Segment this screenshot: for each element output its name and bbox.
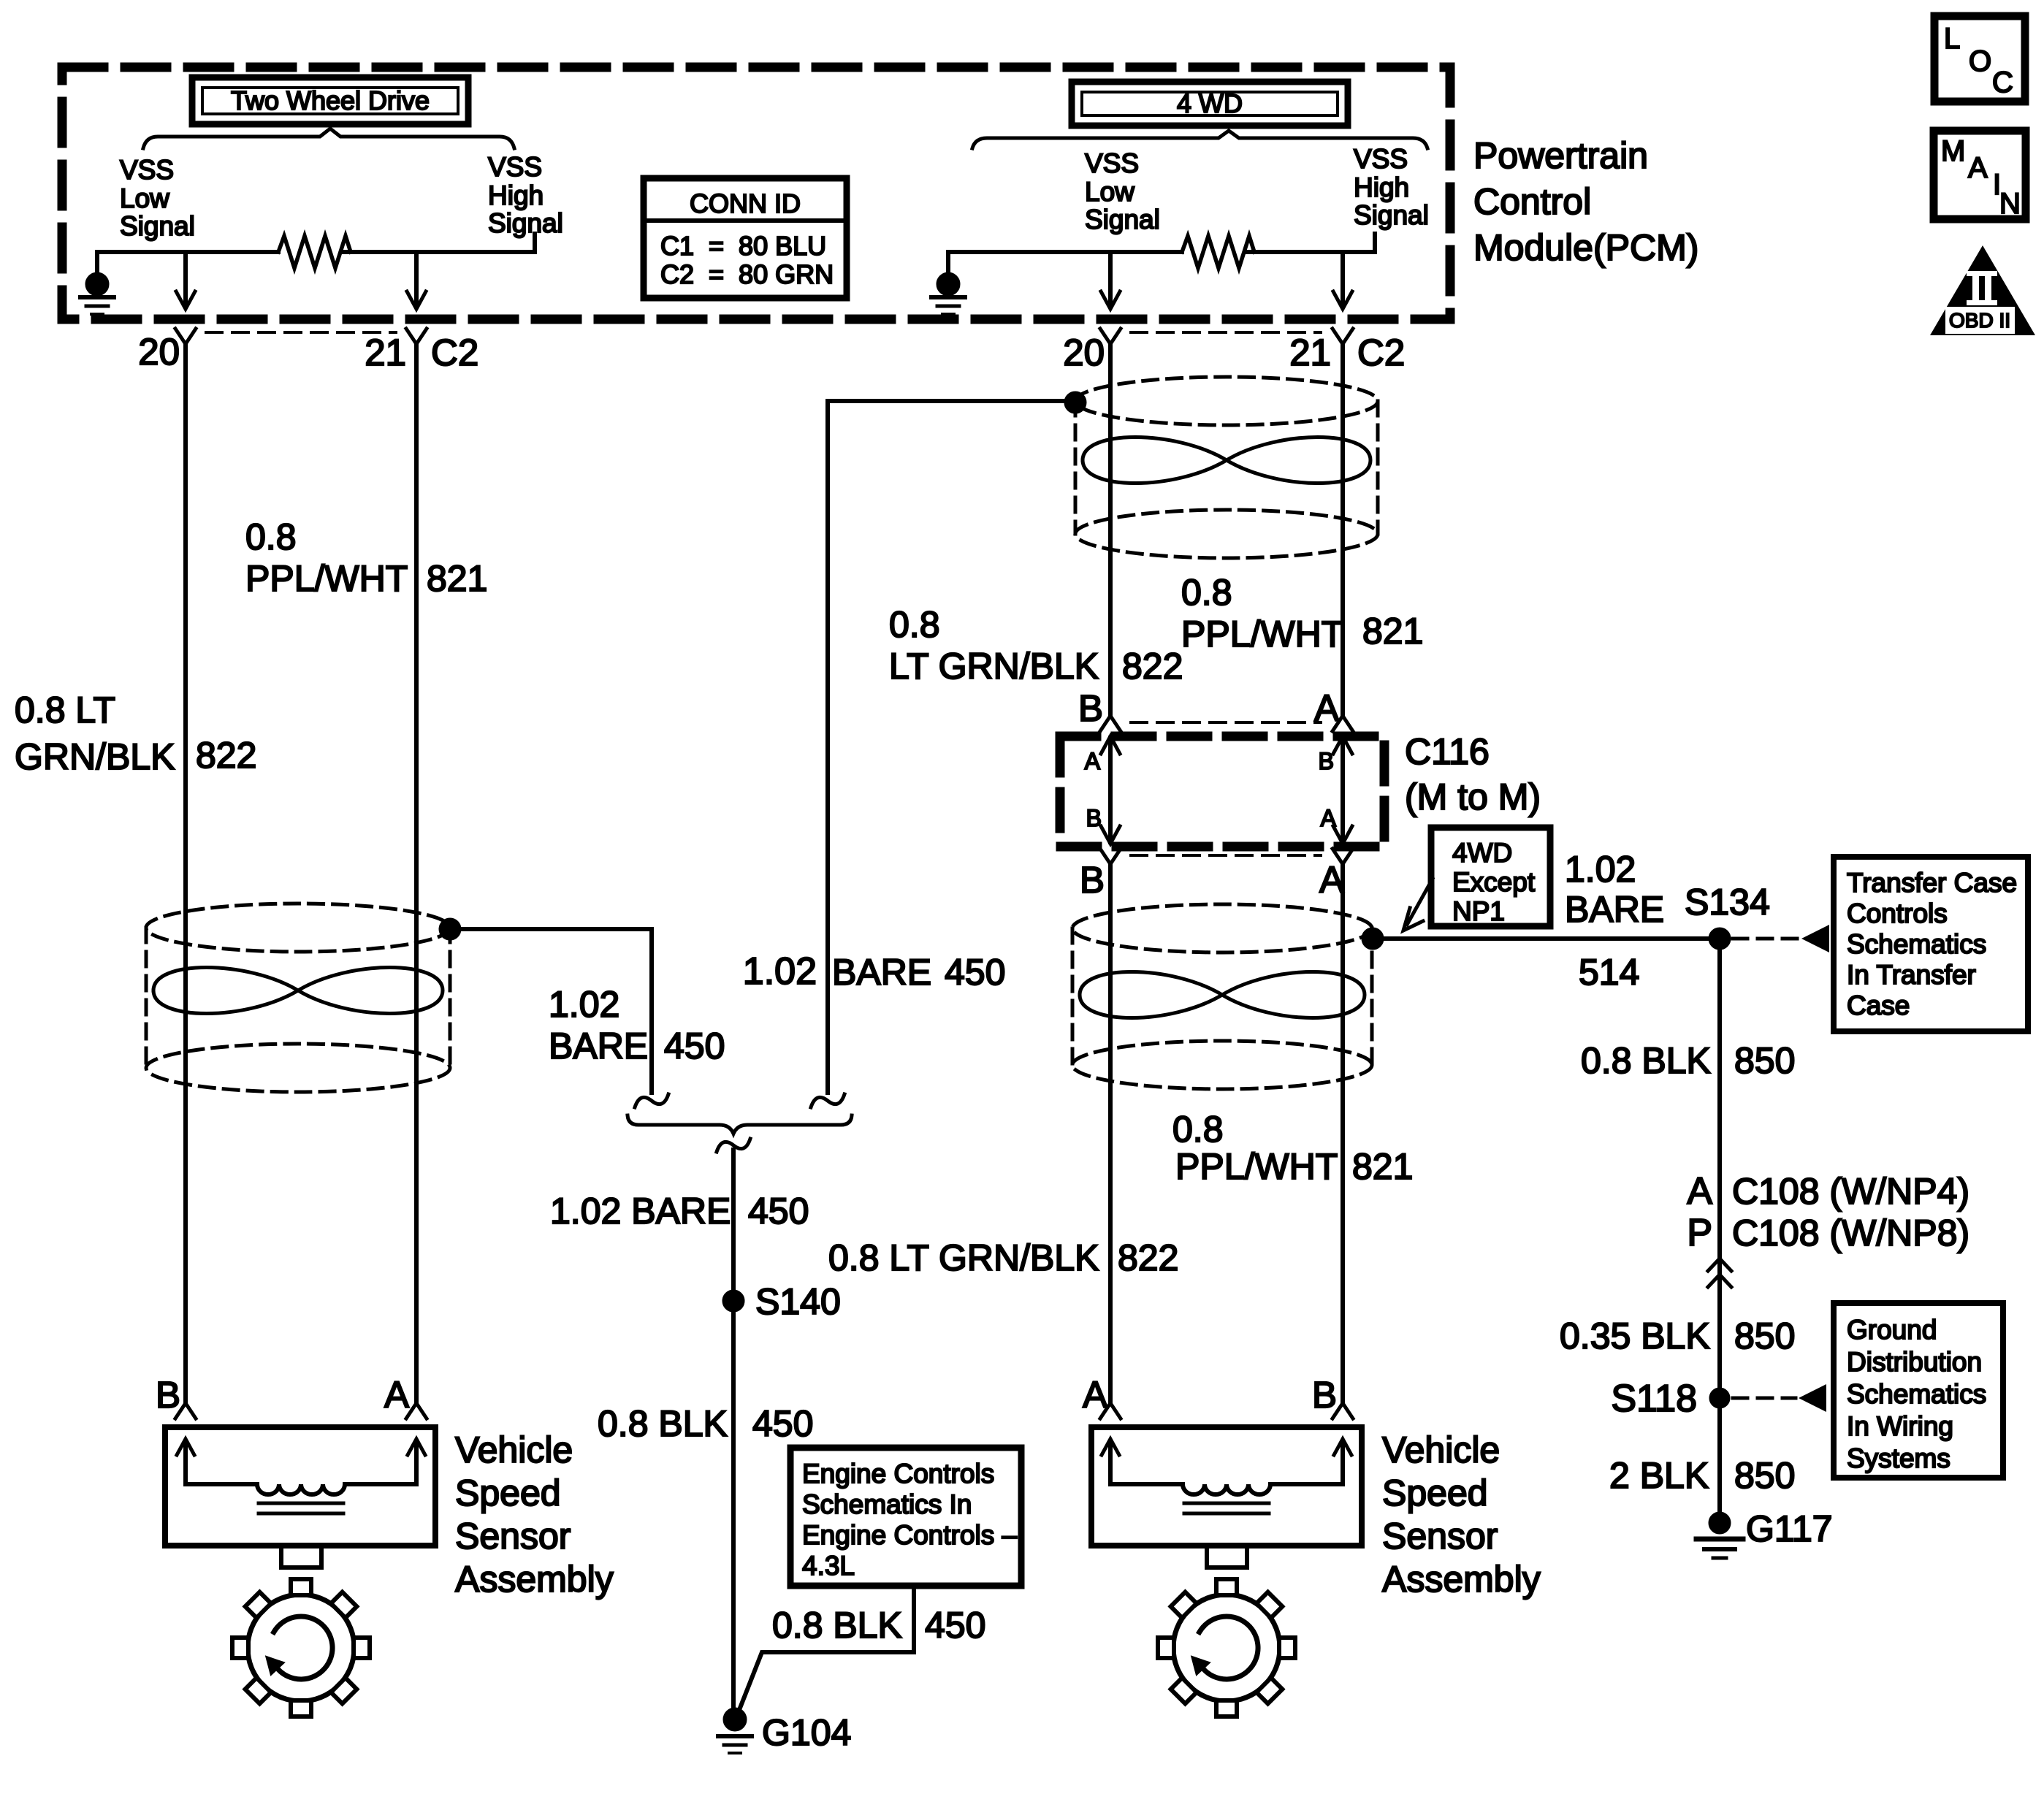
label S134 (1685, 882, 1770, 923)
connector C2 boundary dashed line (2WD) (206, 331, 396, 334)
pin B label in C116 bottom-left (1086, 805, 1102, 831)
connector C116 dashed box (1060, 736, 1384, 847)
wire 821 PPL/WHT (4WD) (1341, 344, 1345, 716)
pin A label (4WD VSS) (1083, 1374, 1107, 1416)
svg-text:450: 450 (748, 1191, 809, 1232)
svg-text:0.8: 0.8 (1181, 572, 1232, 613)
svg-text:C108 (W/NP4): C108 (W/NP4) (1732, 1171, 1969, 1212)
svg-text:822: 822 (1118, 1237, 1178, 1278)
svg-text:C: C (1992, 66, 2013, 99)
connector half below C116 right (1332, 849, 1353, 864)
connector pin 21 (2WD) (406, 329, 427, 344)
svg-text:In Transfer: In Transfer (1847, 960, 1976, 990)
dashed reference link from S118 (1733, 1384, 1826, 1412)
svg-text:821: 821 (427, 558, 487, 599)
OBD II symbol triangle (1930, 245, 2035, 335)
wire 822 LT GRN/BLK (2WD, circuit 822) (183, 344, 188, 1402)
svg-text:PPL/WHT: PPL/WHT (1181, 614, 1343, 654)
label 1.02 BARE 514 (1565, 849, 1664, 993)
vehicle speed sensor assembly (2WD) (165, 1427, 435, 1717)
male pin arrow in C116 right (1333, 736, 1352, 844)
break symbol (combined drain) (717, 1139, 750, 1152)
svg-text:2 BLK: 2 BLK (1609, 1455, 1709, 1496)
pin 21 label (4WD C2) (1289, 332, 1331, 373)
connector C108 chevrons (1708, 1259, 1731, 1287)
connector C2 label (4WD) (1357, 332, 1405, 373)
svg-text:BARE: BARE (832, 952, 931, 993)
connector half below C116 left (1100, 849, 1121, 864)
label 0.8 PPL/WHT 821 (2WD) (245, 516, 487, 599)
wire 450 BLK to G104 (731, 1150, 736, 1719)
svg-text:A: A (1321, 805, 1337, 831)
svg-text:850: 850 (1734, 1455, 1795, 1496)
svg-text:0.8 LT: 0.8 LT (15, 690, 115, 730)
svg-text:VSS: VSS (1085, 148, 1139, 178)
svg-text:C1 = 80 BLU: C1 = 80 BLU (660, 231, 826, 261)
svg-text:Low: Low (1085, 177, 1135, 207)
wire 514 BARE to S134 (1373, 936, 1720, 941)
svg-text:OBD II: OBD II (1949, 309, 2010, 332)
svg-text:450: 450 (925, 1605, 985, 1646)
label S118 (1611, 1378, 1697, 1420)
connector C2 label (2WD) (431, 332, 478, 373)
svg-text:PPL/WHT: PPL/WHT (1175, 1146, 1338, 1187)
svg-text:In Wiring: In Wiring (1847, 1411, 1953, 1441)
resistor R2 (4WD VSS bias) (1182, 236, 1254, 268)
label Vehicle Speed Sensor Assembly (4WD) (1382, 1429, 1541, 1600)
connector boundary dashed above C116 (1131, 721, 1321, 724)
label 1.02 BARE 450 (2WD drain) (549, 984, 725, 1066)
pin A label in C116 top-left (1085, 748, 1101, 774)
svg-text:4 WD: 4 WD (1177, 88, 1243, 118)
svg-text:Two Wheel Drive: Two Wheel Drive (231, 85, 430, 115)
svg-text:Assembly: Assembly (1382, 1559, 1541, 1600)
twisted pair shield (4WD lower cable) (1072, 904, 1372, 1089)
label 0.8 BLK 450 (598, 1403, 813, 1444)
svg-text:Signal: Signal (1085, 205, 1160, 234)
svg-text:Speed: Speed (1382, 1473, 1488, 1513)
svg-text:Transfer Case: Transfer Case (1847, 868, 2017, 898)
label 2 BLK 850 (1609, 1455, 1795, 1496)
label C116 (M to M) (1405, 731, 1541, 817)
ground (PCM internal, 4WD) (931, 252, 965, 314)
connector pin B (2WD VSS) (175, 1403, 196, 1418)
svg-text:C2: C2 (431, 332, 478, 373)
svg-text:Signal: Signal (120, 211, 195, 241)
wire 821 PPL/WHT (2WD, circuit 821) (414, 344, 419, 1402)
pin A label in C116 bottom-right (1321, 805, 1337, 831)
label Powertrain Control Module(PCM) (1473, 135, 1698, 268)
label Vehicle Speed Sensor Assembly (2WD) (455, 1429, 614, 1600)
wire 850 BLK from S134 (1717, 939, 1722, 1523)
svg-text:20: 20 (1063, 332, 1105, 373)
ground G104 (718, 1708, 752, 1753)
svg-text:Controls: Controls (1847, 898, 1948, 928)
svg-text:0.35 BLK: 0.35 BLK (1560, 1316, 1710, 1356)
svg-text:822: 822 (196, 735, 256, 776)
twisted pair twist (4WD upper cable) (1083, 438, 1370, 484)
svg-text:VSS: VSS (1354, 144, 1408, 174)
junction (4WD lower shield drain to S134) (1362, 928, 1384, 950)
wire 822 below C116 (1108, 864, 1113, 1402)
splice S140 (722, 1290, 744, 1312)
svg-text:Engine Controls –: Engine Controls – (802, 1520, 1018, 1550)
svg-text:Systems: Systems (1847, 1443, 1950, 1473)
label 0.8 BLK 450 (engine) (772, 1605, 985, 1646)
pin 20 label (2WD C2) (138, 331, 180, 373)
pin B label (2WD VSS) (156, 1374, 180, 1416)
pin A label (2WD VSS) (384, 1374, 409, 1416)
svg-text:Sensor: Sensor (1382, 1516, 1498, 1557)
label A C108 (W/NP4) (1687, 1170, 1969, 1213)
arrow to pin 20 (2WD) (176, 252, 195, 309)
wire 821 below C116 (1341, 864, 1345, 1402)
svg-text:Module(PCM): Module(PCM) (1473, 227, 1698, 268)
svg-text:B: B (1319, 748, 1334, 774)
svg-text:P: P (1687, 1212, 1712, 1254)
svg-text:Engine Controls: Engine Controls (802, 1459, 994, 1489)
svg-text:21: 21 (365, 332, 406, 373)
svg-text:B: B (156, 1374, 180, 1416)
svg-text:VSS: VSS (488, 152, 542, 182)
Ground Distribution reference box (1834, 1303, 2003, 1478)
svg-text:S140: S140 (755, 1281, 841, 1322)
label G117 (1746, 1508, 1833, 1549)
svg-text:Speed: Speed (455, 1473, 561, 1513)
connector pin A (2WD VSS) (406, 1403, 427, 1418)
label 1.02 BARE 450 (combined) (550, 1191, 809, 1232)
svg-text:M: M (1941, 135, 1965, 167)
arrow to pin 21 (4WD) (1333, 252, 1352, 309)
label P C108 (W/NP8) (1687, 1212, 1969, 1254)
pin B label below C116 (1080, 859, 1105, 901)
svg-text:NP1: NP1 (1452, 896, 1505, 926)
connector pin B (4WD VSS) (1332, 1403, 1353, 1418)
svg-text:Low: Low (120, 183, 169, 213)
Engine Controls reference box (790, 1448, 1021, 1586)
svg-text:4WD: 4WD (1452, 838, 1512, 868)
ground G117 (1696, 1512, 1743, 1558)
svg-text:Vehicle: Vehicle (455, 1429, 573, 1470)
ground (PCM internal, 2WD) (80, 252, 114, 314)
svg-text:CONN ID: CONN ID (690, 188, 801, 218)
svg-text:Powertrain: Powertrain (1473, 135, 1648, 176)
4 WD label box (1072, 82, 1348, 126)
pin A label above C116 (1314, 687, 1339, 729)
label 1.02 BARE 450 (4WD drain) (743, 950, 1006, 993)
svg-text:High: High (488, 180, 544, 210)
4WD Except NP1 note box (1431, 828, 1550, 926)
arrow to pin 21 (2WD) (407, 252, 426, 309)
svg-text:Schematics: Schematics (1847, 929, 1986, 959)
wire 450 drain (2WD shield) (450, 929, 652, 1093)
svg-text:0.8: 0.8 (889, 604, 940, 645)
svg-text:450: 450 (752, 1403, 813, 1444)
svg-text:B: B (1078, 687, 1103, 729)
svg-text:450: 450 (945, 952, 1005, 993)
svg-text:Assembly: Assembly (455, 1559, 614, 1600)
svg-text:822: 822 (1122, 646, 1183, 687)
svg-text:A: A (1968, 152, 1988, 184)
label VSS High Signal (4WD) (1354, 144, 1429, 230)
connector boundary dashed below C116 (1131, 854, 1321, 857)
svg-text:BARE: BARE (549, 1026, 648, 1066)
svg-text:0.8 BLK: 0.8 BLK (598, 1403, 728, 1444)
svg-text:N: N (1999, 188, 2021, 220)
svg-text:0.8 BLK: 0.8 BLK (772, 1605, 902, 1646)
svg-text:450: 450 (664, 1026, 725, 1066)
male pin arrow in C116 left (1101, 736, 1120, 844)
svg-text:0.8: 0.8 (1172, 1109, 1224, 1150)
break symbol (4WD drain wire) (811, 1094, 844, 1107)
svg-text:821: 821 (1362, 611, 1423, 652)
svg-text:C2 = 80 GRN: C2 = 80 GRN (660, 259, 834, 289)
wire PCM 2WD internal (97, 234, 535, 252)
connector pin 20 (2WD) (175, 329, 196, 344)
svg-text:Schematics In: Schematics In (802, 1489, 972, 1519)
arrow to pin 20 (4WD) (1101, 252, 1120, 309)
Transfer Case Controls reference box (1834, 857, 2028, 1031)
label VSS Low Signal (4WD) (1085, 148, 1160, 234)
svg-text:A: A (1319, 859, 1344, 901)
arrow from 4WD note to junction (1403, 879, 1433, 931)
svg-text:A: A (1085, 748, 1101, 774)
svg-text:0.8 LT GRN/BLK: 0.8 LT GRN/BLK (828, 1237, 1099, 1278)
Powertrain Control Module (PCM) dashed boundary box (62, 67, 1450, 319)
label 0.8 LT GRN/BLK 822 (4WD upper) (889, 604, 1183, 687)
label 0.35 BLK 850 (1560, 1316, 1795, 1356)
svg-text:Signal: Signal (1354, 200, 1429, 230)
twisted pair shield (2WD cable) (146, 904, 450, 1092)
svg-text:821: 821 (1352, 1146, 1413, 1187)
wire 450 drain (4WD shield to splice) (828, 401, 1065, 1093)
svg-text:O: O (1969, 45, 1991, 77)
svg-text:LT GRN/BLK: LT GRN/BLK (889, 646, 1099, 687)
brace joining drain wires (628, 1115, 852, 1134)
svg-text:Schematics: Schematics (1847, 1379, 1986, 1409)
svg-text:Control: Control (1473, 181, 1591, 222)
svg-text:Vehicle: Vehicle (1382, 1429, 1500, 1470)
svg-text:Distribution: Distribution (1847, 1347, 1982, 1377)
pin B label in C116 top-right (1319, 748, 1334, 774)
svg-text:Case: Case (1847, 990, 1910, 1020)
label G104 (762, 1712, 851, 1753)
brace under 4 WD box (972, 131, 1427, 148)
svg-text:PPL/WHT: PPL/WHT (245, 558, 408, 599)
pin B label (4WD VSS) (1312, 1374, 1337, 1416)
svg-text:B: B (1086, 805, 1102, 831)
Two Wheel Drive label box (192, 77, 468, 124)
twisted pair twist (2WD cable) (153, 968, 443, 1014)
svg-text:850: 850 (1734, 1040, 1795, 1081)
svg-text:(M to M): (M to M) (1405, 776, 1541, 817)
svg-text:1.02: 1.02 (743, 950, 817, 993)
svg-text:C2: C2 (1357, 332, 1405, 373)
svg-text:B: B (1312, 1374, 1337, 1416)
svg-text:BARE: BARE (1565, 889, 1664, 930)
svg-text:0.8 BLK: 0.8 BLK (1581, 1040, 1711, 1081)
junction (2WD shield drain to 450) (439, 918, 461, 940)
svg-text:G104: G104 (762, 1712, 851, 1753)
vehicle speed sensor assembly (4WD) (1091, 1427, 1362, 1717)
label VSS High Signal (2WD) (488, 152, 563, 238)
MAIN symbol box (1934, 131, 2026, 220)
connector C2 boundary dashed line (4WD) (1131, 331, 1321, 334)
wire 450 from Engine Controls (736, 1586, 914, 1717)
svg-text:Except: Except (1452, 867, 1536, 897)
svg-text:4.3L: 4.3L (802, 1551, 855, 1581)
connector half above C116 right (1332, 716, 1353, 731)
svg-text:1.02: 1.02 (549, 984, 619, 1025)
svg-text:Sensor: Sensor (455, 1516, 571, 1557)
junction (4WD shield drain) (1064, 392, 1086, 413)
connector pin 20 (4WD) (1100, 329, 1121, 344)
splice S118 (1709, 1388, 1730, 1408)
svg-text:GRN/BLK: GRN/BLK (15, 736, 175, 777)
brace under Two Wheel Drive box (143, 129, 514, 148)
connector pin 21 (4WD) (1332, 329, 1353, 344)
svg-text:20: 20 (138, 331, 180, 373)
label S140 (755, 1281, 841, 1322)
svg-text:A: A (1687, 1170, 1712, 1213)
svg-text:High: High (1354, 172, 1409, 202)
label 0.8 LT GRN/BLK 822 (4WD lower) (828, 1237, 1178, 1278)
wire PCM 4WD internal (948, 234, 1375, 252)
splice S134 (1709, 928, 1731, 950)
svg-text:S118: S118 (1611, 1378, 1697, 1420)
pin 20 label (4WD C2) (1063, 332, 1105, 373)
twisted pair twist (4WD lower cable) (1080, 972, 1365, 1018)
twisted pair shield (4WD upper cable) (1075, 377, 1378, 558)
CONN ID table box (644, 178, 847, 298)
svg-text:C108 (W/NP8): C108 (W/NP8) (1732, 1213, 1969, 1253)
svg-text:Signal: Signal (488, 208, 563, 238)
svg-text:VSS: VSS (120, 155, 174, 185)
pin A label below C116 (1319, 859, 1344, 901)
label VSS Low Signal (2WD) (120, 155, 195, 241)
svg-text:G117: G117 (1746, 1508, 1833, 1549)
svg-text:A: A (1083, 1374, 1107, 1416)
svg-text:S134: S134 (1685, 882, 1770, 923)
label 0.8 BLK 850 (1581, 1040, 1795, 1081)
svg-text:514: 514 (1579, 952, 1639, 993)
label 0.8 LT GRN/BLK 822 (2WD) (15, 690, 256, 777)
dashed reference link from S134 (1733, 925, 1829, 952)
svg-text:C116: C116 (1405, 731, 1490, 772)
svg-text:0.8: 0.8 (245, 516, 297, 557)
svg-text:1.02 BARE: 1.02 BARE (550, 1191, 731, 1232)
resistor R1 (2WD VSS bias) (278, 236, 351, 268)
label 0.8 PPL/WHT 821 (4WD lower) (1172, 1109, 1413, 1187)
svg-text:L: L (1944, 23, 1960, 55)
svg-text:Ground: Ground (1847, 1315, 1937, 1345)
svg-text:21: 21 (1289, 332, 1331, 373)
svg-text:B: B (1080, 859, 1105, 901)
pin B label above C116 (1078, 687, 1103, 729)
connector half above C116 left (1100, 716, 1121, 731)
svg-text:1.02: 1.02 (1565, 849, 1636, 890)
label 0.8 PPL/WHT 821 (4WD upper) (1181, 572, 1423, 654)
svg-text:850: 850 (1734, 1316, 1795, 1356)
pin 21 label (2WD C2) (365, 332, 406, 373)
wire 822 LT GRN/BLK (4WD) (1108, 344, 1113, 716)
LOC symbol box (1934, 16, 2025, 102)
break symbol (2WD drain wire) (635, 1094, 668, 1107)
connector pin A (4WD VSS) (1100, 1403, 1121, 1418)
svg-text:A: A (384, 1374, 409, 1416)
